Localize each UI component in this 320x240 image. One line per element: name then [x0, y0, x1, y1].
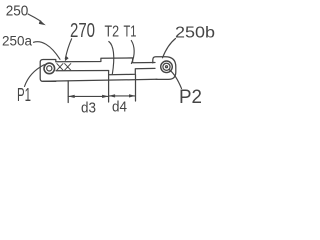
svg-text:P2: P2 [179, 87, 202, 108]
svg-text:d3: d3 [81, 100, 96, 117]
svg-text:d4: d4 [112, 99, 127, 116]
svg-text:250a: 250a [2, 33, 32, 48]
svg-text:270: 270 [70, 20, 95, 42]
svg-text:T1: T1 [124, 24, 137, 41]
svg-text:250: 250 [6, 3, 29, 20]
svg-text:T2: T2 [105, 24, 120, 41]
svg-text:250b: 250b [175, 25, 215, 42]
svg-text:P1: P1 [17, 85, 31, 105]
